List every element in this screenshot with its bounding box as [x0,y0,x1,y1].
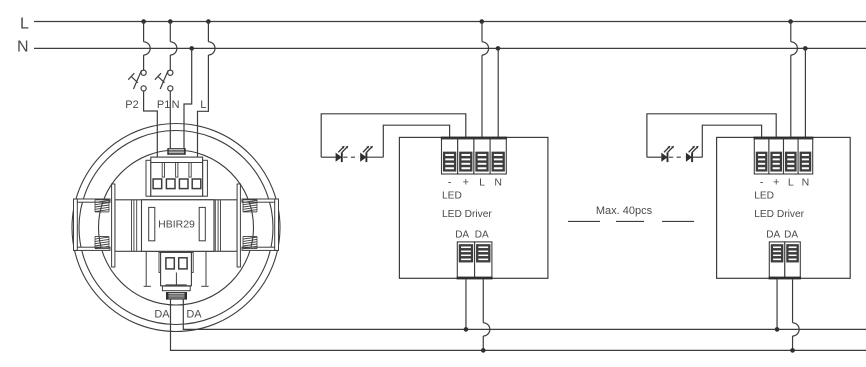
sensor module right rail [215,200,220,252]
pin label DA (sensor right) [186,309,202,321]
pin label DA (driver left) (driver 1) [455,229,469,240]
svg-text:P1: P1 [157,99,170,111]
spring clip right [242,199,279,250]
pin label N (sensor) [172,99,180,111]
wire driver - terminal to LED string (driver 1) [383,125,449,157]
pin label L (driver 2) [788,177,794,189]
svg-text:Max. 40pcs: Max. 40pcs [596,205,653,217]
sensor body HBIR29 [142,200,215,252]
svg-text:L: L [788,177,794,189]
wire L bus to driver L terminal (hop over N) (driver 2) [791,22,798,140]
LED D1 (driver 1) [336,146,349,162]
sensor lens dome [99,150,254,305]
pin label P1 [157,99,170,111]
label Max. 40pcs [596,205,653,217]
node DA bus A junction (driver 1) [464,327,469,332]
LED D1 (driver 2) [661,146,674,162]
svg-text:N: N [172,99,180,111]
svg-text:LED: LED [754,191,774,202]
svg-text:N: N [494,177,502,189]
wire driver DA1 to DA bus A (driver 1) [465,279,467,329]
wire driver DA2 to DA bus B (hop over bus A) (driver 1) [483,279,490,350]
sensor module left rail [132,200,137,252]
sensor body left slot [149,207,155,240]
wire driver + terminal to LED string (driver 2) [647,114,776,157]
LED D2 (driver 2) [686,146,699,162]
pin label - (driver 2) [760,177,764,189]
svg-text:P2: P2 [125,99,138,111]
pin label L (driver 1) [479,177,485,189]
sensor module band [115,200,237,252]
pin label DA (driver left) (driver 2) [766,229,780,240]
svg-text:L: L [200,99,206,111]
wire L bus to driver L terminal (hop over N) (driver 1) [482,22,489,140]
pin label DA (driver right) (driver 2) [784,229,798,240]
svg-text:N: N [17,38,29,55]
driver mains terminal block (driver 2) [754,137,814,174]
sensor lower housing legs [144,251,209,286]
svg-text:DA: DA [475,229,489,240]
svg-text:L: L [479,177,485,189]
wire driver + terminal to LED string (driver 1) [321,114,466,157]
node N junction (sensor N) [189,46,194,51]
spring clip left [74,199,111,250]
node L junction (sensor L) [206,19,211,24]
wire LED string right segment (driver 1) [366,156,383,158]
sensor module right wall [237,184,240,267]
wire L bus to sensor pin 4 (hop over N) [198,22,216,159]
push button P1 [155,70,173,91]
wire LED string left segment (driver 2) [647,156,661,158]
label LED Driver (driver 1) [442,209,492,220]
wire L bus to P2 switch (hop over N) [144,22,151,71]
sensor outer ring [72,124,280,332]
pin label + (driver 2) [773,177,779,189]
sensor module left wall [112,184,115,267]
node L junction (driver2) [788,19,793,24]
LED D2 (driver 1) [360,146,373,162]
driver DA terminal block (driver 2) [769,242,801,280]
sensor bottom cable tab [166,292,187,300]
label LED Driver (driver 2) [754,209,804,220]
wire P1 switch to sensor pin 2 [169,91,171,149]
node L junction (driver1) [480,19,485,24]
node N junction (driver1) [496,46,501,51]
pin label P2 [125,99,138,111]
net label L [20,15,29,32]
wire driver - terminal to LED string (driver 2) [702,125,761,157]
pin label L (sensor) [200,99,206,111]
L bus wire [34,21,866,23]
sensor body right slot [199,207,205,240]
LED driver box (driver 1) [399,137,548,278]
svg-text:N: N [802,177,810,189]
svg-text:+: + [463,177,469,189]
node DA bus B junction (driver 2) [790,348,795,353]
node L-P1 junction [168,19,173,24]
svg-text:LED: LED [442,191,462,202]
node DA bus A junction (driver 2) [775,327,780,332]
pin label N (driver 1) [494,177,502,189]
svg-text:L: L [20,15,29,32]
svg-text:DA: DA [154,309,170,321]
node DA bus B junction (driver 1) [481,348,486,353]
pin label N (driver 2) [802,177,810,189]
wire driver DA2 to DA bus B (hop over bus A) (driver 2) [793,279,800,350]
wire driver DA1 to DA bus A (driver 2) [776,279,778,329]
wire N bus to driver N terminal (driver 1) [497,48,499,139]
driver DA terminal block (driver 1) [457,242,493,280]
wire sensor DA- to DA bus B [171,300,866,351]
wire P2 switch to sensor pin 1 [144,91,158,158]
driver mains terminal block (driver 1) [441,137,507,174]
wire LED string dashed segment (driver 2) [669,156,684,158]
wire LED string left segment (driver 1) [321,156,335,158]
label LED (driver 2) [754,191,774,202]
wire sensor DA+ to DA bus A [183,300,866,330]
svg-text:HBIR29: HBIR29 [158,218,195,230]
svg-text:DA: DA [186,309,202,321]
N bus wire [34,47,866,49]
LED driver box (driver 2) [717,137,851,278]
pin label DA (sensor left) [154,309,170,321]
wire LED string right segment (driver 2) [692,156,702,158]
svg-text:-: - [448,177,452,189]
svg-text:-: - [760,177,764,189]
label LED (driver 1) [442,191,462,202]
sensor inner ring [79,131,273,325]
svg-text:DA: DA [766,229,780,240]
svg-text:DA: DA [455,229,469,240]
wire N bus to sensor pin 3 [184,48,192,149]
push button P2 [128,70,146,91]
pin label + (driver 1) [463,177,469,189]
sensor mains terminal block (P2 P1 N L) [146,157,207,196]
svg-text:DA: DA [784,229,798,240]
node L-P2 junction [141,19,146,24]
pin label DA (driver right) (driver 1) [475,229,489,240]
sensor top cable tab [167,148,185,155]
svg-text:LED Driver: LED Driver [754,209,804,220]
pin label - (driver 1) [448,177,452,189]
sensor DA terminal block [159,252,193,290]
wire LED string dashed segment (driver 1) [343,156,358,158]
wire N bus to driver N terminal (driver 2) [804,48,806,139]
svg-text:LED Driver: LED Driver [442,209,492,220]
label HBIR29 [158,218,195,230]
net label N [17,38,29,55]
continuation dashes [568,220,694,222]
node N junction (driver2) [803,46,808,51]
wire L bus to P1 switch (hop over N) [170,22,177,71]
svg-text:+: + [773,177,779,189]
